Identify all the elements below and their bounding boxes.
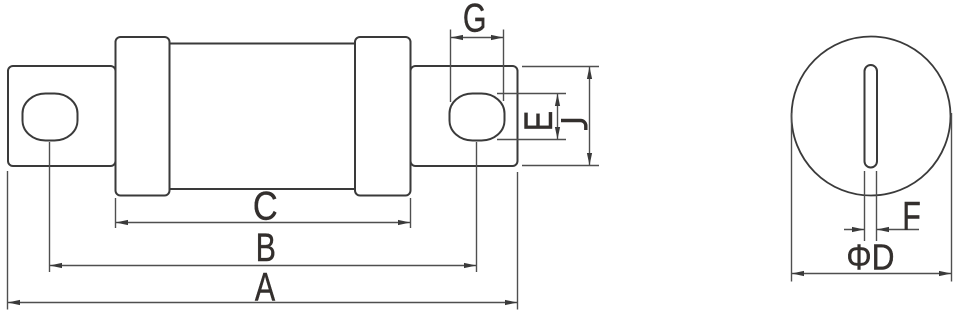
F dimension line right — [877, 229, 920, 231]
right end cap — [355, 37, 411, 196]
D dimension line — [792, 273, 952, 275]
right tag — [411, 66, 518, 166]
B extension lines — [49, 142, 51, 272]
svg-text:B: B — [256, 226, 276, 270]
G dimension line — [451, 37, 504, 39]
svg-text:ΦD: ΦD — [846, 238, 894, 278]
svg-text:E: E — [517, 111, 561, 131]
F dimension line left — [844, 229, 865, 231]
left tag hole — [23, 94, 78, 141]
svg-text:A: A — [255, 266, 276, 310]
left tag — [8, 66, 116, 166]
end view slot — [865, 65, 878, 168]
svg-text:C: C — [253, 183, 278, 228]
A dimension line — [8, 302, 518, 304]
end view circle — [792, 37, 951, 196]
E dimension line — [557, 94, 559, 140]
J label — [561, 121, 586, 131]
left end cap — [116, 37, 170, 196]
J extension lines — [522, 66, 599, 68]
E extension lines — [497, 93, 566, 95]
svg-text:F: F — [902, 195, 921, 239]
G extension lines — [450, 30, 452, 103]
D extension lines — [791, 113, 793, 282]
B dimension line — [50, 265, 477, 267]
svg-text:G: G — [463, 0, 487, 40]
C dimension line — [116, 222, 411, 224]
fuse body — [170, 44, 356, 190]
right tag hole — [450, 94, 505, 141]
A extension lines — [7, 171, 9, 310]
F extension lines — [864, 171, 866, 241]
J dimension line — [589, 67, 591, 166]
C extension lines — [115, 198, 117, 228]
